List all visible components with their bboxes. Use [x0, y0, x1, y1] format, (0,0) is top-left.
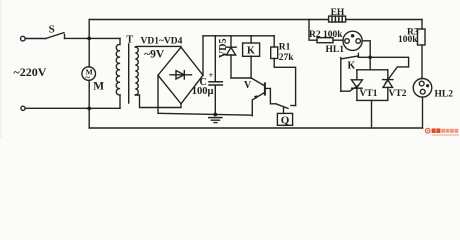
wire triac top bus — [357, 69, 388, 71]
wire triac bottom bus — [357, 99, 388, 101]
thermal element Q box — [277, 113, 292, 125]
diode VD5 — [230, 36, 232, 47]
watermark — [425, 128, 458, 135]
transformer T primary — [116, 38, 120, 95]
transistor V collector — [251, 78, 265, 86]
wire top rail riser — [88, 20, 90, 39]
node junction dot A — [87, 37, 91, 41]
resistor R1 — [271, 47, 278, 59]
transformer T secondary — [135, 47, 138, 95]
wire HL2 bottom — [422, 97, 424, 128]
wire bridge minus down — [157, 75, 159, 113]
wire dc bus — [203, 35, 274, 37]
wire — [25, 38, 46, 40]
svg-text:+: + — [209, 71, 214, 80]
thyristor VT2 — [387, 70, 389, 80]
svg-text:S: S — [49, 24, 55, 36]
lamp HL1 — [343, 31, 362, 50]
transistor V bar — [264, 83, 266, 94]
transistor V base lead — [266, 88, 276, 103]
node L terminal bottom — [21, 106, 25, 110]
bridge inner diode — [170, 74, 192, 76]
svg-text:VD5: VD5 — [218, 39, 229, 58]
svg-text:HL2: HL2 — [435, 89, 454, 99]
bridge rectifier VD1-VD4 — [158, 47, 203, 104]
resistor R2 — [317, 38, 333, 43]
wire HL1 right — [362, 41, 370, 70]
resistor R3 — [421, 20, 423, 30]
transformer core — [128, 44, 130, 103]
wire VD5-K join — [231, 77, 251, 79]
motor M — [82, 67, 96, 81]
wire triac tap to rail — [371, 100, 373, 128]
capacitor C lower lead — [214, 85, 216, 114]
svg-text:100k: 100k — [398, 35, 418, 45]
svg-text:27k: 27k — [279, 53, 295, 63]
svg-text:T: T — [126, 35, 133, 46]
Q link — [283, 107, 285, 114]
svg-text:Q: Q — [281, 115, 290, 127]
svg-text:~9V: ~9V — [144, 49, 165, 61]
node L terminal top — [21, 36, 26, 41]
wire dc ground rail — [158, 113, 252, 115]
svg-text:R2 100k: R2 100k — [309, 30, 343, 40]
svg-text:VD1~VD4: VD1~VD4 — [141, 37, 183, 47]
wire VT1 gate — [341, 85, 359, 91]
svg-text:R1: R1 — [279, 43, 291, 53]
svg-text:EH: EH — [331, 8, 345, 18]
svg-text:K: K — [348, 61, 356, 72]
svg-text:VT1: VT1 — [360, 89, 378, 99]
svg-text:~220V: ~220V — [14, 65, 47, 79]
wire secondary bottom to bridge — [135, 95, 181, 108]
heater EH — [329, 16, 346, 22]
wire secondary top to bridge — [135, 45, 181, 48]
ground — [209, 117, 222, 119]
svg-text:HL1: HL1 — [326, 45, 345, 55]
svg-text:~: ~ — [85, 72, 90, 82]
thyristor VT1 — [356, 70, 358, 80]
wire bottom left rail — [25, 107, 120, 109]
capacitor C1 lead — [214, 36, 216, 81]
node junction dot B — [87, 107, 91, 111]
wire bridge plus up — [202, 36, 204, 75]
lamp HL2 — [413, 79, 432, 98]
wire top rail — [89, 19, 422, 21]
wire — [333, 39, 343, 41]
svg-text:M: M — [93, 80, 104, 92]
thermal switch right contact — [291, 105, 296, 107]
wire contact to gate flag — [358, 57, 408, 83]
svg-text:V: V — [244, 80, 252, 91]
node junction dot C — [213, 113, 217, 117]
wire bottom rail — [89, 127, 422, 129]
wire R2 branch drop — [309, 20, 317, 41]
transistor V emitter — [252, 92, 265, 115]
thermal switch blade — [276, 104, 288, 109]
svg-text:K: K — [247, 46, 255, 57]
wire primary bottom lead — [119, 95, 121, 108]
capacitor C plates — [209, 81, 222, 83]
wire — [65, 37, 121, 39]
node junction dot D — [368, 56, 372, 60]
svg-text:100μ: 100μ — [192, 86, 214, 97]
relay contact K — [340, 58, 342, 92]
svg-text:VT2: VT2 — [389, 89, 407, 99]
relay coil K — [250, 36, 252, 43]
wire — [88, 80, 90, 128]
wire motor drop — [88, 38, 90, 67]
scan edge band — [0, 0, 2, 138]
wire R1 to switch — [274, 59, 295, 106]
switch S — [46, 33, 64, 39]
